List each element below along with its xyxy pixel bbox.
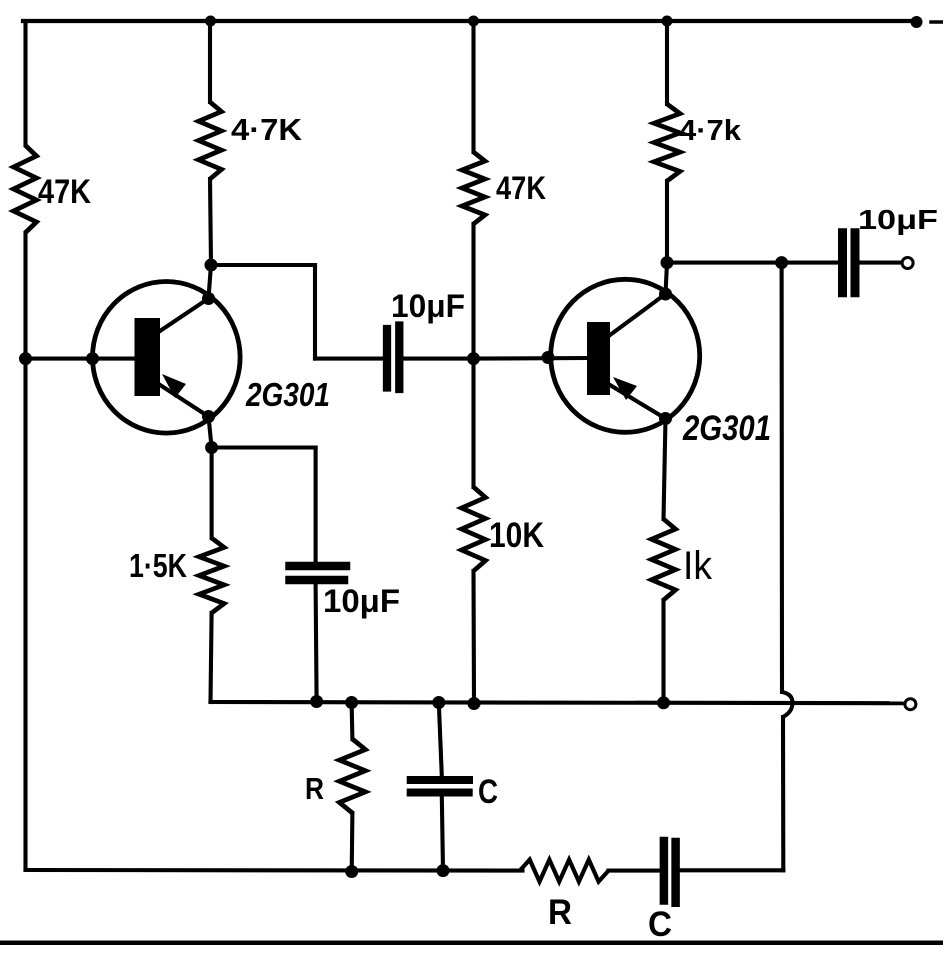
svg-text:C: C (478, 773, 498, 811)
svg-text:R: R (305, 771, 324, 806)
svg-text:47K: 47K (38, 173, 91, 211)
svg-text:4·7K: 4·7K (231, 112, 303, 147)
svg-text:Ik: Ik (683, 544, 713, 588)
svg-text:10μF: 10μF (391, 288, 465, 324)
svg-text:10K: 10K (489, 516, 544, 555)
svg-text:C: C (648, 905, 672, 944)
svg-text:1·5K: 1·5K (129, 547, 187, 584)
svg-text:R: R (548, 893, 572, 932)
svg-text:2G301: 2G301 (682, 409, 771, 448)
svg-text:47K: 47K (496, 170, 546, 206)
svg-text:10μF: 10μF (323, 583, 400, 619)
svg-text:4·7k: 4·7k (679, 115, 742, 147)
svg-text:10μF: 10μF (858, 204, 938, 235)
svg-text:2G301: 2G301 (245, 376, 330, 413)
